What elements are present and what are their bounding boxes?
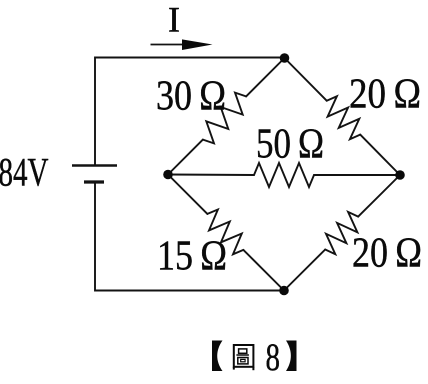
current arrow head bbox=[182, 39, 213, 50]
caption character tu right leg bbox=[252, 367, 254, 370]
svg-text:20 Ω: 20 Ω bbox=[349, 72, 421, 118]
svg-text:15 Ω: 15 Ω bbox=[157, 234, 227, 280]
svg-text:50 Ω: 50 Ω bbox=[256, 122, 324, 168]
svg-text:I: I bbox=[168, 0, 180, 40]
wire: battery top to top node bbox=[95, 58, 285, 166]
wire: left node to 50-ohm lead bbox=[168, 174, 254, 177]
wire: left node to 15-ohm lead bbox=[168, 175, 207, 214]
current arrow shaft bbox=[151, 44, 197, 46]
wire: 15-ohm lead to bottom node bbox=[243, 250, 284, 291]
caption left lenticular bracket bbox=[212, 341, 223, 372]
svg-text:84V: 84V bbox=[0, 150, 49, 195]
wire: bottom node to 20-ohm (lower right) lead bbox=[284, 250, 325, 291]
node left bbox=[163, 170, 173, 180]
resistor 50 ohm zigzag bbox=[254, 163, 314, 187]
node right bbox=[395, 170, 405, 180]
battery short plate (-) bbox=[84, 180, 104, 183]
resistor 20 ohm upper-right zigzag bbox=[327, 96, 361, 139]
resistor 30 ohm zigzag bbox=[203, 93, 246, 144]
wire: top node to 30-ohm lead bbox=[246, 58, 284, 96]
resistor 20 ohm lower-right zigzag bbox=[325, 212, 358, 254]
wire: top node to 20-ohm (upper right) lead bbox=[285, 58, 327, 101]
caption character tu left leg bbox=[233, 367, 235, 370]
node bottom bbox=[279, 286, 289, 296]
caption character tu middle bar bbox=[236, 354, 249, 356]
caption character tu inner top mouth box bbox=[239, 349, 247, 353]
node top bbox=[280, 53, 290, 63]
caption character tu bottom inner box bbox=[241, 359, 245, 361]
wire: 20-ohm lead to right node bbox=[360, 135, 400, 175]
svg-text:20 Ω: 20 Ω bbox=[352, 231, 422, 277]
svg-text:8: 8 bbox=[266, 335, 281, 379]
caption right lenticular bracket bbox=[286, 341, 297, 372]
resistor 15 ohm zigzag bbox=[207, 210, 243, 255]
svg-text:30 Ω: 30 Ω bbox=[156, 74, 226, 120]
wire: 30-ohm lead to left node bbox=[168, 140, 203, 175]
wire: 50-ohm lead to right node bbox=[314, 174, 400, 176]
wire: 20-ohm lead to right node bbox=[358, 175, 400, 217]
caption character tu bottom outer box bbox=[238, 358, 248, 364]
wire: battery bottom to bottom node bbox=[95, 182, 284, 291]
battery long plate (+) bbox=[72, 164, 117, 167]
caption character tu (figure) outer box bbox=[234, 345, 254, 367]
